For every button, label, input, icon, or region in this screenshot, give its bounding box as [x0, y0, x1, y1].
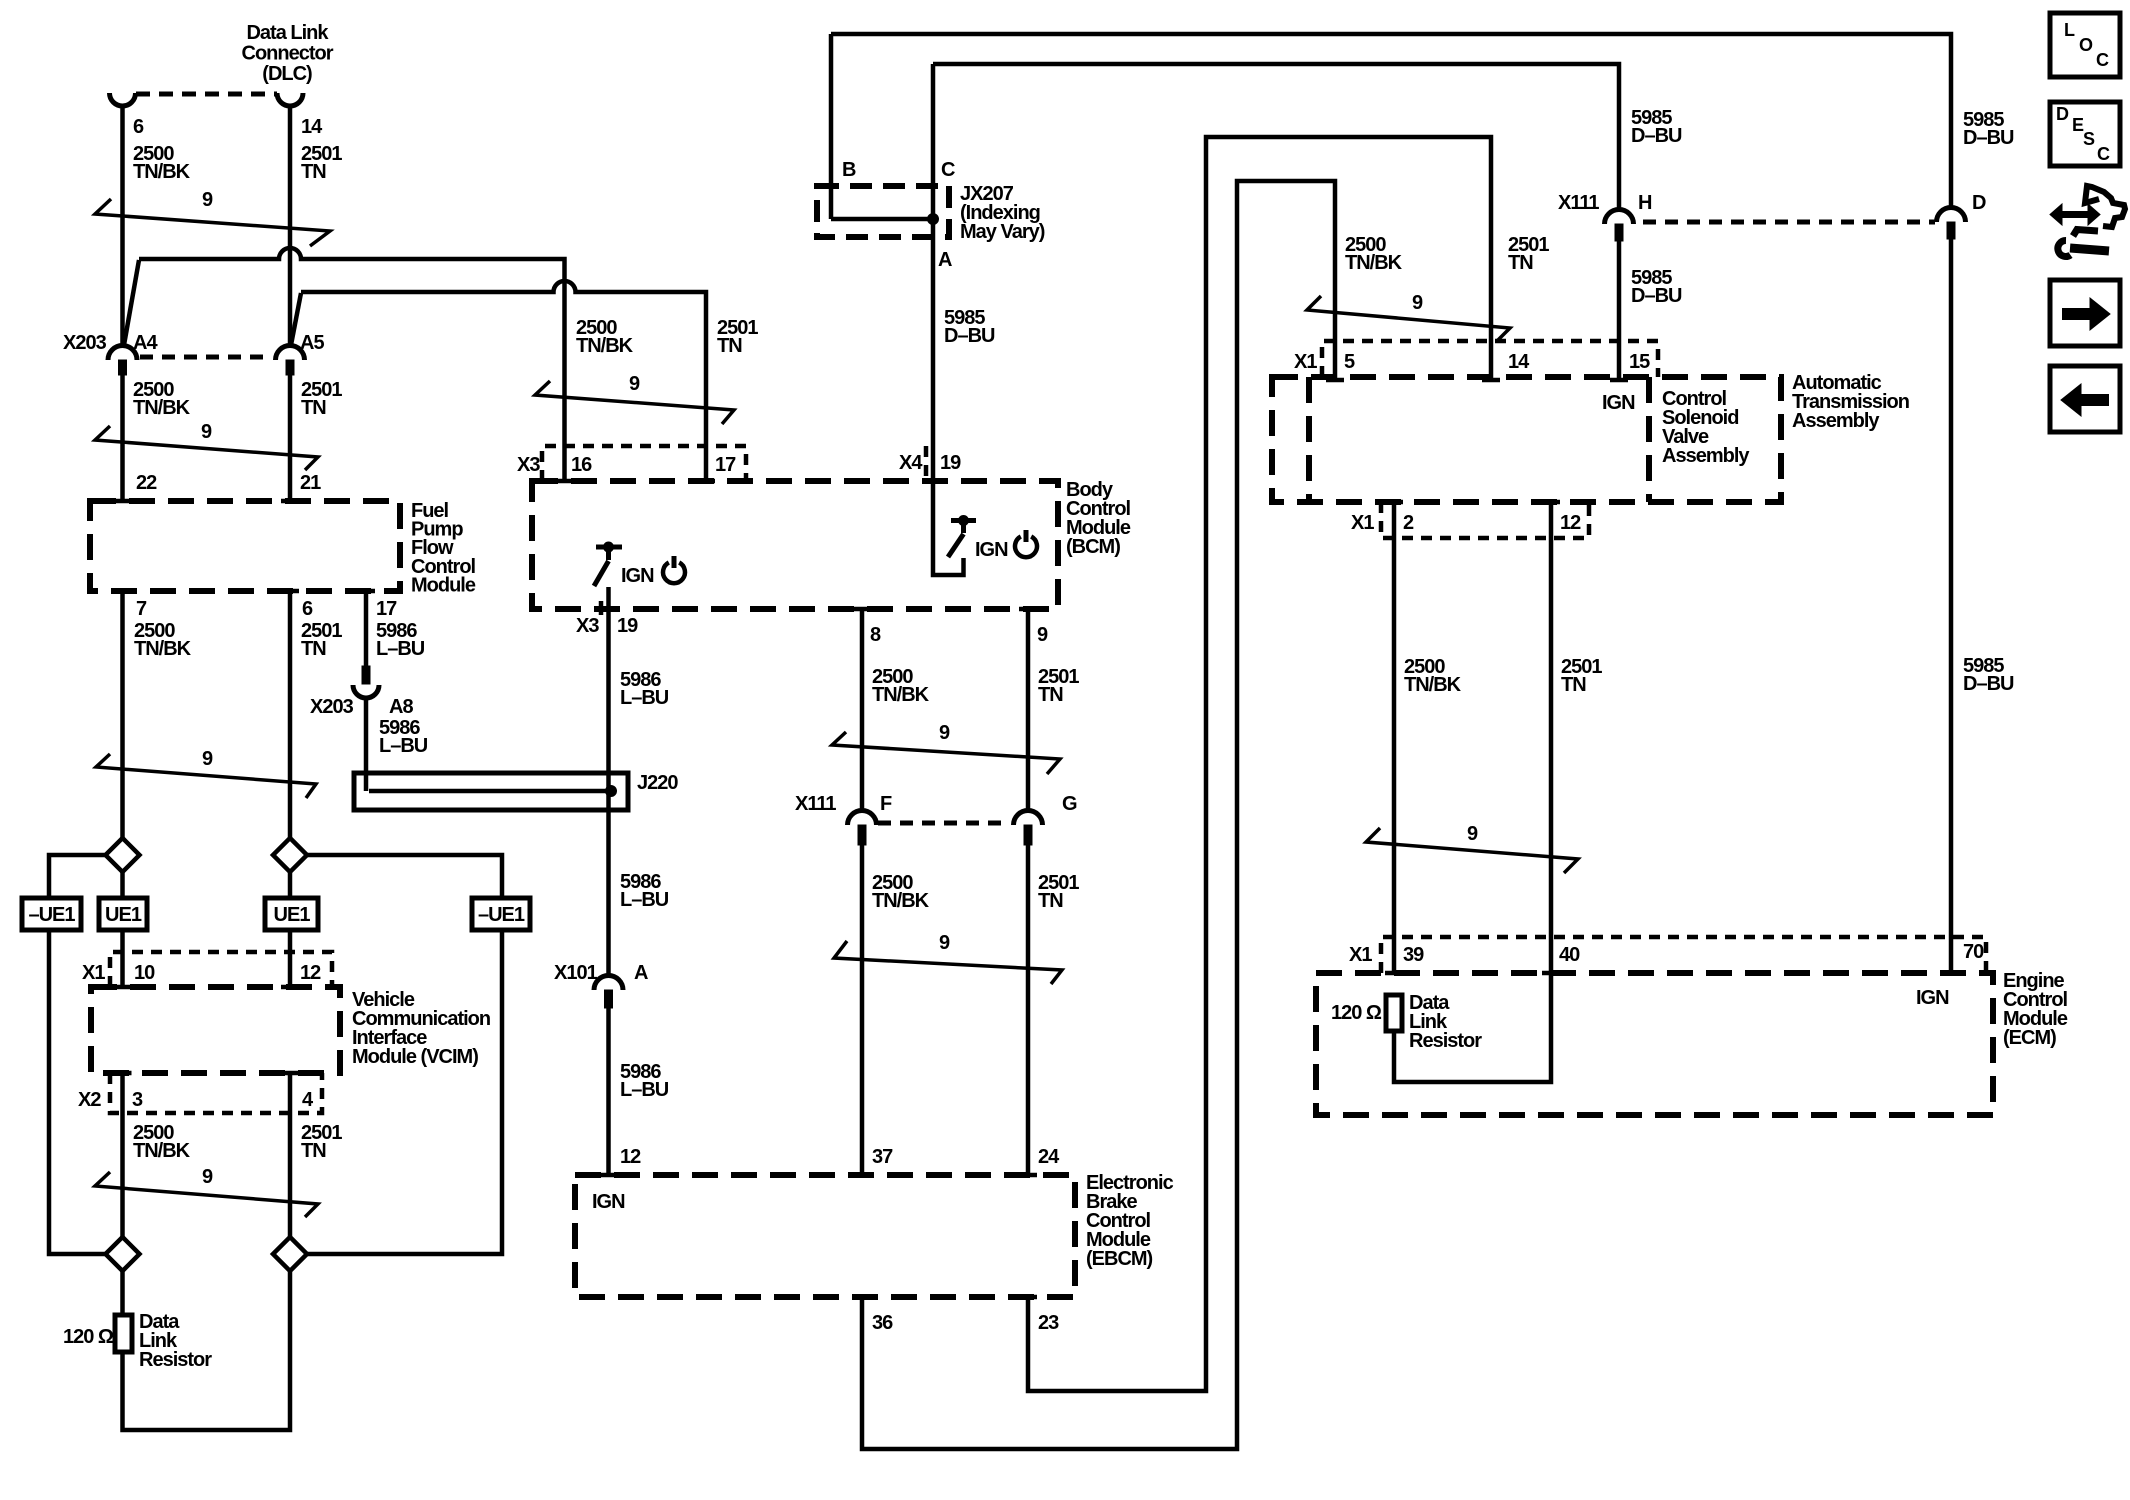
wire label 5985 D-BU (top right) [1963, 109, 2014, 149]
svg-text:2: 2 [1403, 512, 1414, 534]
wire 5985 D-BU D to ECM 70 [1951, 239, 2014, 973]
wire 2501 TN X203 A5 to Fuel Pump pin 21 [290, 375, 342, 501]
connector X203 pin A4 [108, 332, 158, 375]
svg-text:6: 6 [302, 598, 313, 620]
BCM label [1066, 479, 1131, 558]
svg-text:(ECM): (ECM) [2003, 1027, 2056, 1049]
wire 2501 TN EBCM 23 to transmission X1-14 [1028, 137, 1491, 1391]
svg-text:Data Link: Data Link [246, 22, 329, 44]
wire -UE1 left leg to diamond3 [49, 930, 106, 1254]
svg-text:22: 22 [136, 472, 157, 494]
pin tick trans X1-14 [1482, 378, 1500, 383]
pin tick trans X1-5 [1326, 378, 1344, 383]
net box UE1 (left) [99, 898, 147, 930]
svg-text:TN/BK: TN/BK [133, 1140, 191, 1162]
junction diamond (2500 net lower) [106, 1237, 140, 1271]
svg-text:TN/BK: TN/BK [872, 890, 930, 912]
pin tick ECM X1-39 [1385, 971, 1403, 976]
svg-text:TN: TN [1038, 890, 1063, 912]
svg-text:(BCM): (BCM) [1066, 536, 1120, 558]
svg-text:O: O [2079, 35, 2093, 55]
svg-text:70: 70 [1963, 941, 1984, 963]
wire 5986 L-BU BCM X3-19 to J220 to X101 [609, 587, 669, 976]
wire label 2501 TN [301, 143, 342, 183]
svg-text:L–BU: L–BU [620, 1079, 669, 1101]
Automatic Transmission Assembly label [1792, 372, 1909, 432]
svg-text:TN: TN [301, 1140, 326, 1162]
svg-text:IGN: IGN [1916, 987, 1949, 1009]
wire 2501 TN X111 G to EBCM 24 [1028, 845, 1079, 1175]
wire bus (5985 D-BU line B) JX207 C to X111 H [933, 64, 1619, 210]
svg-text:L–BU: L–BU [620, 687, 669, 709]
wire UE1 to VCIM X1-10 [120, 930, 125, 987]
svg-text:23: 23 [1038, 1312, 1059, 1334]
connector strip X3 of BCM [517, 446, 746, 481]
svg-text:TN/BK: TN/BK [576, 335, 634, 357]
twisted pair symbol 9 (BCM to X111) [832, 722, 1060, 774]
EBCM pin 12 [600, 1146, 642, 1175]
LOC icon box [2050, 13, 2120, 77]
net box -UE1 (left) [22, 898, 81, 930]
svg-text:TN/BK: TN/BK [133, 161, 191, 183]
svg-text:C: C [2097, 144, 2110, 164]
pin tick X2-3 [114, 1071, 132, 1076]
svg-text:X203: X203 [310, 696, 354, 718]
wire ECM resistor loop 39 to 40 [1394, 973, 1551, 1082]
wire 2501 TN BCM 9 to X111 G [1028, 609, 1079, 811]
svg-text:X203: X203 [63, 332, 107, 354]
wire branch 2500 TN/BK from X203 A4 to BCM X3-16 [139, 248, 565, 481]
svg-text:12: 12 [1560, 512, 1581, 534]
wire 2500 TN/BK label (to BCM X3-16) [576, 317, 634, 357]
pin 22 [114, 472, 158, 501]
svg-text:TN/BK: TN/BK [134, 638, 192, 660]
pin tick X3-16 [556, 479, 574, 484]
svg-text:D–BU: D–BU [1631, 125, 1682, 147]
pin tick X1-10 [114, 985, 132, 990]
svg-text:X2: X2 [78, 1089, 101, 1111]
svg-text:9: 9 [1412, 292, 1423, 314]
svg-text:Module (VCIM): Module (VCIM) [352, 1046, 478, 1068]
transmission inner pocket edge [1306, 377, 1312, 502]
svg-text:D–BU: D–BU [1963, 127, 2014, 149]
svg-text:10: 10 [134, 962, 155, 984]
svg-text:Connector: Connector [242, 43, 334, 65]
Engine Control Module box [1316, 973, 1993, 1115]
junction diamond (2500 net) [106, 838, 140, 872]
pin tick trans X1-15 [1610, 378, 1628, 383]
svg-text:X3: X3 [576, 615, 599, 637]
svg-text:X111: X111 [1558, 192, 1599, 214]
wire 2501 TN trans X1-12 to ECM 40 [1551, 502, 1602, 973]
svg-text:14: 14 [1508, 351, 1530, 373]
wire label 5985 D-BU (above X111 H) [1631, 107, 1682, 147]
wire 2501 TN from DLC pin 14 to X203 A5 [288, 105, 293, 346]
svg-text:UE1: UE1 [105, 904, 142, 926]
wire 2500 TN/BK trans X1-2 to ECM 39 [1394, 502, 1462, 973]
svg-text:L: L [2064, 20, 2075, 40]
X203 dashed link A4-A5 [140, 355, 272, 360]
twisted pair symbol 9 (below fuel pump) [96, 748, 316, 798]
Electronic Brake Control Module box [575, 1175, 1075, 1297]
svg-text:40: 40 [1559, 944, 1580, 966]
connector X203 pin A5 [276, 332, 325, 375]
forward arrow icon box [2050, 280, 2120, 346]
svg-text:9: 9 [202, 748, 213, 770]
wire branch 2501 TN from X203 A5 to BCM X3-17 [301, 281, 706, 481]
svg-text:TN: TN [717, 335, 742, 357]
Fuel Pump Flow Control Module box [90, 501, 400, 591]
svg-text:17: 17 [376, 598, 397, 620]
svg-text:120 Ω: 120 Ω [63, 1326, 114, 1348]
Automatic Transmission Assembly box [1272, 377, 1781, 502]
wire label 5985 D-BU (to BCM X4-19) [944, 307, 995, 347]
twisted pair symbol 9 (X111 to EBCM) [834, 932, 1062, 984]
svg-text:6: 6 [133, 116, 144, 138]
svg-text:G: G [1062, 793, 1077, 815]
svg-text:21: 21 [300, 472, 321, 494]
svg-text:Resistor: Resistor [139, 1349, 212, 1371]
svg-text:D–BU: D–BU [1631, 285, 1682, 307]
DESC icon box [2050, 102, 2120, 166]
net box -UE1 (right) [472, 898, 530, 930]
svg-text:(DLC): (DLC) [262, 63, 312, 85]
svg-text:9: 9 [201, 421, 212, 443]
connector strip X1 of ECM [1349, 937, 1986, 973]
resistor 120 ohm (data link resistor) [63, 1315, 132, 1352]
svg-text:TN/BK: TN/BK [1404, 674, 1462, 696]
svg-text:Assembly: Assembly [1662, 445, 1750, 467]
svg-text:3: 3 [132, 1089, 143, 1111]
svg-text:Resistor: Resistor [1409, 1030, 1482, 1052]
svg-text:16: 16 [571, 454, 592, 476]
twisted pair symbol 9 (DLC pair) [95, 189, 330, 246]
wire 2501 TN fuel pin6 down [290, 591, 342, 838]
svg-text:TN/BK: TN/BK [133, 397, 191, 419]
Data Link Connector (DLC) title [242, 22, 334, 85]
connector strip X2 of VCIM [78, 1073, 322, 1113]
svg-text:15: 15 [1629, 351, 1650, 373]
JX207 internal wires and junction [831, 34, 939, 481]
svg-text:19: 19 [617, 615, 638, 637]
svg-text:A4: A4 [133, 332, 158, 354]
net box UE1 (mid) [265, 898, 318, 930]
wire label 2500 TN/BK (to trans X1-5) [1345, 234, 1403, 274]
wire label 2501 TN (to trans X1-14) [1508, 234, 1549, 274]
splice pack J220 [354, 772, 678, 810]
wire diamond1 to -UE1 [49, 855, 106, 898]
pin tick ECM X1-40 [1542, 971, 1560, 976]
svg-text:TN: TN [301, 638, 326, 660]
svg-text:X111: X111 [795, 793, 836, 815]
svg-text:X1: X1 [1294, 351, 1317, 373]
ignition switch IGN (BCM left) [594, 542, 685, 587]
svg-text:9: 9 [629, 373, 640, 395]
connector DLC cavity 6 [110, 93, 136, 106]
connector X111 pin H [1558, 192, 1652, 241]
svg-text:F: F [880, 793, 892, 815]
svg-text:9: 9 [1467, 823, 1478, 845]
svg-text:9: 9 [202, 189, 213, 211]
svg-text:L–BU: L–BU [620, 889, 669, 911]
svg-text:X3: X3 [517, 454, 540, 476]
svg-text:A: A [634, 962, 648, 984]
svg-text:TN: TN [1038, 684, 1063, 706]
svg-text:D: D [1972, 192, 1986, 214]
junction diamond (2501 net) [273, 838, 307, 872]
ignition switch IGN (BCM right) [933, 481, 1037, 575]
svg-text:36: 36 [872, 1312, 893, 1334]
wire 2500 TN/BK X203 A4 to Fuel Pump pin 22 [123, 375, 191, 501]
svg-text:9: 9 [1037, 624, 1048, 646]
svg-text:X1: X1 [1349, 944, 1372, 966]
pin 21 [281, 472, 321, 501]
svg-text:IGN: IGN [621, 565, 654, 587]
svg-text:D: D [2056, 104, 2069, 124]
back arrow icon box [2050, 366, 2120, 432]
BCM X3-19 pin labels [576, 601, 638, 637]
BCM pin 9 [1019, 609, 1048, 646]
wire diamond1 to UE1 [120, 872, 125, 898]
connector X111 pin F [795, 793, 892, 845]
svg-text:8: 8 [870, 624, 881, 646]
wire diamond2 to UE1 [288, 872, 293, 898]
svg-text:D–BU: D–BU [1963, 673, 2014, 695]
wire 5986 L-BU fuel pin17 to X203 A8 [366, 591, 425, 666]
svg-text:L–BU: L–BU [376, 638, 425, 660]
svg-text:X1: X1 [1351, 512, 1374, 534]
svg-text:12: 12 [620, 1146, 641, 1168]
svg-text:IGN: IGN [1602, 392, 1635, 414]
wire resistor bottom loop to diamond4 [123, 1271, 291, 1430]
pin tick trans X1-2 [1385, 500, 1403, 505]
connector DLC cavity 14 [277, 93, 303, 106]
wire 5986 L-BU X101 to EBCM 12 [609, 1008, 669, 1175]
connector X203 pin A8 [310, 666, 413, 718]
twisted pair symbol 9 (below VCIM) [95, 1166, 318, 1217]
resistor 120 ohm (ECM data link resistor) [1331, 995, 1402, 1031]
svg-text:39: 39 [1403, 944, 1424, 966]
svg-text:14: 14 [301, 116, 323, 138]
twisted pair symbol 9 (to fuel pump) [95, 421, 318, 470]
svg-text:TN: TN [1508, 252, 1533, 274]
svg-text:9: 9 [939, 722, 950, 744]
wire 2500 TN/BK from DLC pin 6 to X203 A4 [120, 105, 125, 346]
splice JX207 box [817, 159, 955, 237]
pin 6 [281, 591, 313, 620]
svg-text:S: S [2083, 129, 2095, 149]
EBCM pin 24 [1019, 1146, 1060, 1175]
svg-text:9: 9 [202, 1166, 213, 1188]
svg-text:TN/BK: TN/BK [872, 684, 930, 706]
EBCM pin 23 [1019, 1297, 1059, 1334]
svg-text:24: 24 [1038, 1146, 1060, 1168]
svg-text:19: 19 [940, 452, 961, 474]
junction diamond (2501 net lower) [273, 1237, 307, 1271]
svg-text:C: C [941, 159, 955, 181]
connector X111 pin D [1937, 192, 1987, 239]
wire 5985 D-BU H to transmission X1-15 [1619, 241, 1682, 380]
wire 2500 TN/BK VCIM X2-3 down [123, 1073, 191, 1238]
EBCM pin 36 [853, 1297, 893, 1334]
Control Solenoid Valve Assembly label [1662, 388, 1750, 467]
pin 17 [357, 591, 397, 620]
svg-text:D–BU: D–BU [944, 325, 995, 347]
svg-text:9: 9 [939, 932, 950, 954]
svg-text:L–BU: L–BU [379, 735, 428, 757]
svg-text:5: 5 [1344, 351, 1355, 373]
svg-text:UE1: UE1 [274, 904, 311, 926]
EBCM label [1086, 1172, 1174, 1270]
wire -UE1 right leg to diamond4 [307, 930, 502, 1254]
connector strip X1 of transmission (top) [1294, 341, 1658, 377]
pin 7 [114, 591, 148, 620]
svg-text:IGN: IGN [975, 539, 1008, 561]
wire diamond3 to 120 ohm resistor [120, 1271, 125, 1315]
BCM pin 8 [853, 609, 881, 646]
svg-text:C: C [2096, 50, 2109, 70]
svg-text:37: 37 [872, 1146, 893, 1168]
wire 2500 TN/BK fuel pin7 down [123, 591, 192, 838]
wire 2500 TN/BK BCM 8 to X111 F [862, 609, 930, 811]
svg-text:X4: X4 [899, 452, 923, 474]
svg-text:J220: J220 [637, 772, 678, 794]
DLC connector body dashed link [136, 92, 277, 97]
diagnostic vehicle-wrench icon [2050, 186, 2125, 256]
svg-text:(EBCM): (EBCM) [1086, 1248, 1153, 1270]
Fuel Pump Flow Control Module label [411, 500, 476, 596]
svg-text:TN: TN [1561, 674, 1586, 696]
Body Control Module box [532, 481, 1058, 609]
svg-text:Assembly: Assembly [1792, 410, 1880, 432]
svg-text:B: B [842, 159, 856, 181]
X111 dashed link F-G [878, 821, 1010, 826]
svg-text:H: H [1638, 192, 1652, 214]
wire label 2500 TN/BK [133, 143, 191, 183]
svg-text:A8: A8 [389, 696, 413, 718]
Control Solenoid Valve Assembly box [1646, 377, 1652, 502]
svg-text:12: 12 [300, 962, 321, 984]
svg-text:120 Ω: 120 Ω [1331, 1002, 1382, 1024]
connector X111 pin G [1014, 793, 1078, 845]
X111 dashed link H-D [1643, 220, 1935, 225]
svg-text:X101: X101 [554, 962, 598, 984]
svg-text:May Vary): May Vary) [960, 221, 1045, 243]
connector strip X1 of VCIM [82, 952, 332, 987]
svg-text:–UE1: –UE1 [478, 904, 525, 926]
svg-text:TN: TN [301, 397, 326, 419]
wire 2501 TN label (to BCM X3-17) [717, 317, 758, 357]
pin tick X3-17 [697, 479, 715, 484]
wire 5986 L-BU X203 A8 to J220 [366, 697, 428, 791]
svg-text:X1: X1 [82, 962, 105, 984]
ECM Data Link Resistor label [1409, 992, 1482, 1052]
connector X101 pin A [554, 962, 648, 1008]
connector X4 pin 19 labels [899, 446, 961, 481]
svg-text:TN: TN [301, 161, 326, 183]
svg-text:–UE1: –UE1 [28, 904, 75, 926]
wire 2501 TN VCIM X2-4 down [290, 1073, 342, 1238]
svg-text:IGN: IGN [592, 1191, 625, 1213]
svg-text:7: 7 [136, 598, 147, 620]
ECM label [2003, 970, 2068, 1049]
twisted pair symbol 9 (BCM X3 pair) [535, 373, 734, 424]
JX207 label [938, 183, 1045, 271]
VCIM label [352, 989, 490, 1068]
wire UE1 to VCIM X1-12 [288, 930, 293, 987]
svg-text:Module: Module [411, 574, 476, 596]
svg-text:A: A [938, 249, 952, 271]
wire 2500 TN/BK X111 F to EBCM 37 [862, 845, 930, 1175]
twisted pair symbol 9 (transmission X1 pair) [1307, 292, 1510, 341]
wire 2500 TN/BK EBCM 36 to transmission X1-5 [862, 181, 1335, 1449]
Vehicle Communication Interface Module box [91, 987, 340, 1073]
svg-text:TN/BK: TN/BK [1345, 252, 1403, 274]
Data Link Resistor label [139, 1311, 212, 1371]
pin tick X1-12 [281, 985, 299, 990]
pin tick X2-4 [281, 1071, 299, 1076]
EBCM pin 37 [853, 1146, 893, 1175]
wire diamond2 to -UE1 right [307, 855, 502, 898]
pin tick trans X1-12 [1542, 500, 1560, 505]
twisted pair symbol 9 (to ECM) [1366, 823, 1578, 873]
svg-text:A5: A5 [300, 332, 324, 354]
svg-text:17: 17 [715, 454, 736, 476]
connector strip X1 of transmission (bottom) [1351, 502, 1589, 538]
wire bus top (5985 D-BU line A) JX207 B to ECM 70 [831, 34, 1951, 208]
